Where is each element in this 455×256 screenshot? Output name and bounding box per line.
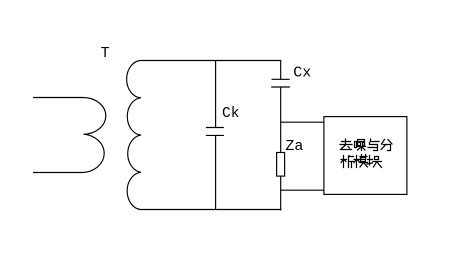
resistor Za body: [277, 153, 285, 177]
capacitor Cx plates: [271, 79, 290, 87]
module text char 析: [341, 156, 354, 168]
wire top: [140, 60, 281, 62]
svg-text:Za: Za: [285, 138, 303, 155]
node A wire to module top: [280, 121, 324, 123]
svg-text:Ck: Ck: [222, 106, 239, 122]
wire bottom: [140, 209, 282, 211]
node B wire to module bottom: [280, 189, 324, 191]
wire Cx to node A: [280, 87, 282, 122]
wire node B to bottom rail: [280, 190, 282, 210]
module box 去噪与分析模块: [324, 117, 407, 195]
transformer T secondary winding: [127, 61, 141, 210]
svg-text:T: T: [101, 45, 110, 62]
capacitor Ck plates: [206, 128, 224, 136]
wire node A to resistor Za: [280, 122, 282, 152]
capacitor Ck bottom lead: [215, 135, 217, 209]
transformer T primary winding: [33, 97, 106, 172]
module text char 去: [340, 139, 352, 150]
module text char 块: [367, 156, 382, 168]
module text char 分: [381, 140, 392, 151]
svg-text:Cx: Cx: [293, 65, 311, 82]
module text char 模: [354, 155, 368, 168]
wire resistor Za to node B: [280, 176, 282, 190]
capacitor Cx top lead: [280, 61, 282, 80]
module text char 噪: [355, 140, 366, 151]
module text char 与: [368, 139, 379, 151]
capacitor Ck top lead: [215, 61, 217, 128]
